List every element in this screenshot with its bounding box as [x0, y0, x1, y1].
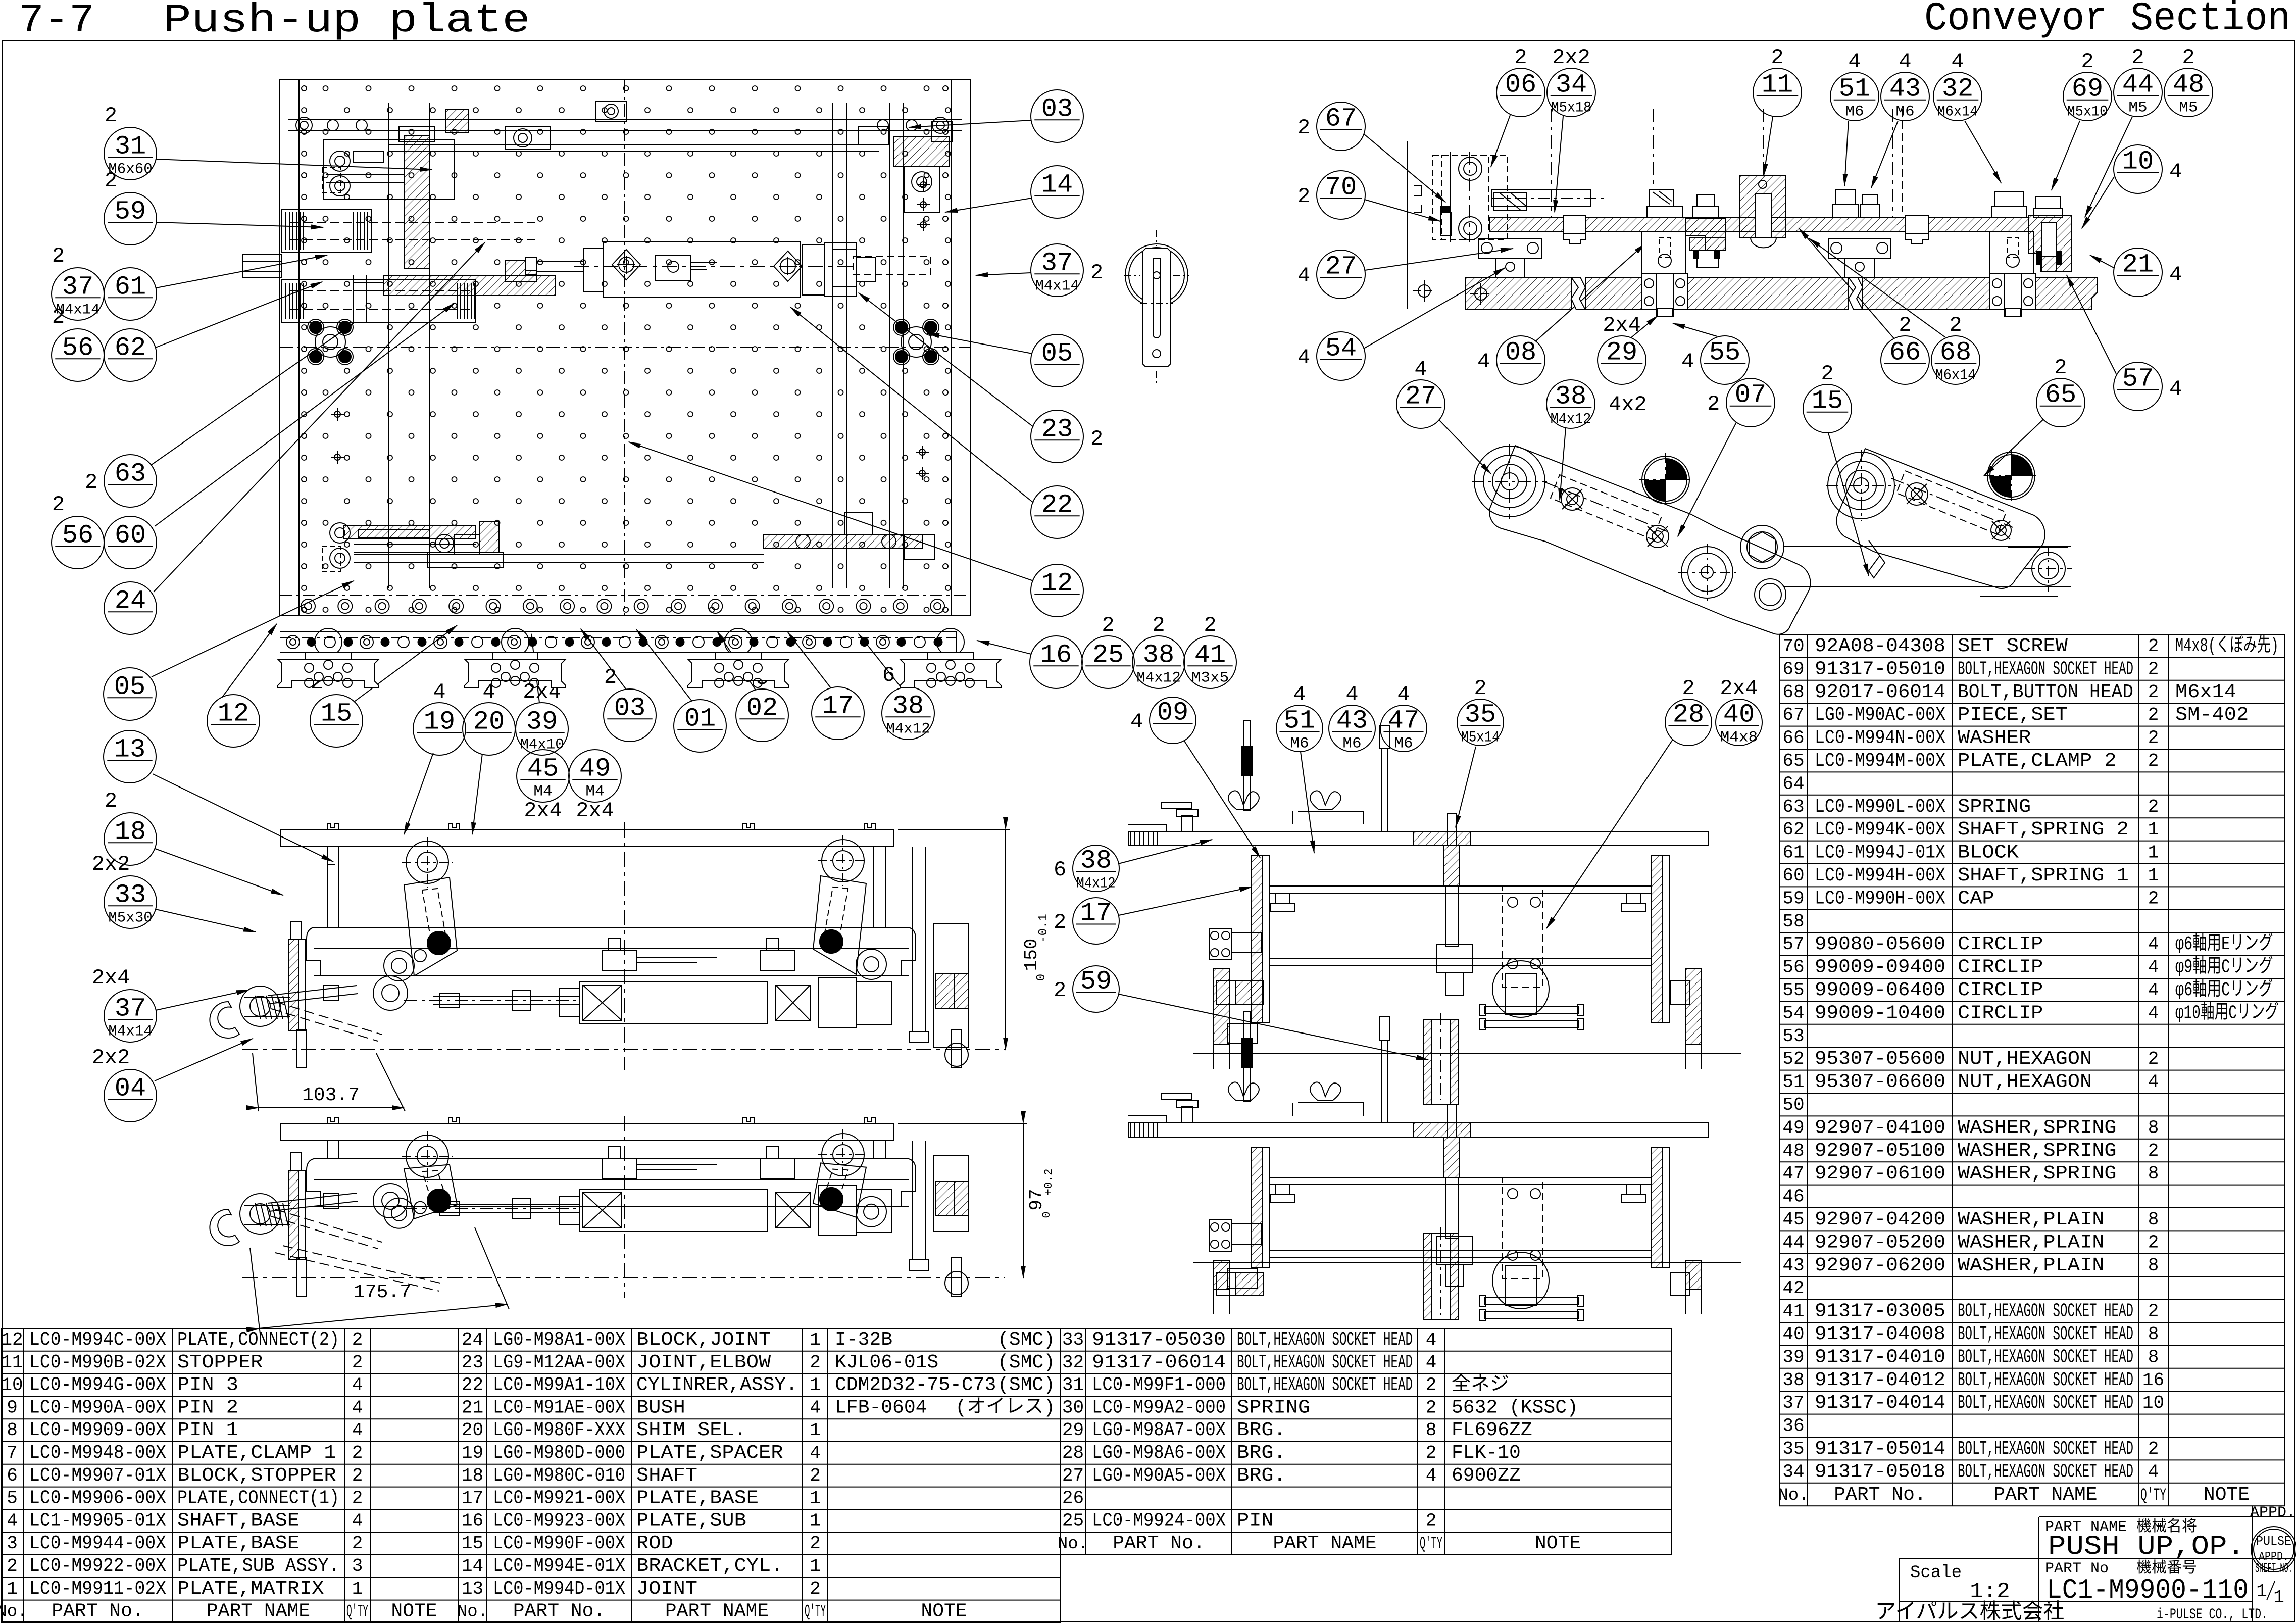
svg-text:47: 47 [1388, 706, 1419, 735]
svg-text:LG9-M12AA-00X: LG9-M12AA-00X [493, 1352, 625, 1373]
svg-text:PLATE,SPACER: PLATE,SPACER [636, 1442, 783, 1464]
svg-text:8: 8 [2148, 1324, 2159, 1345]
balloon 43 [1329, 682, 1375, 752]
svg-text:69: 69 [2072, 74, 2103, 104]
svg-text:70: 70 [1325, 173, 1357, 203]
svg-text:BUSH: BUSH [636, 1397, 685, 1418]
leader 61 [156, 255, 327, 288]
svg-text:M4: M4 [533, 783, 552, 800]
svg-text:175.7: 175.7 [354, 1282, 411, 1303]
svg-text:2: 2 [1514, 45, 1527, 70]
hatched block left lower [1235, 1272, 1264, 1296]
balloon 06 [1496, 45, 1545, 117]
balloon 48 [2164, 45, 2213, 117]
cross hole marks [920, 182, 926, 188]
svg-text:Conveyor Section: Conveyor Section [1924, 0, 2290, 42]
svg-text:51: 51 [1839, 74, 1870, 104]
left hanger bolt [1182, 1107, 1193, 1123]
svg-text:6900ZZ: 6900ZZ [1452, 1465, 1521, 1487]
svg-text:2: 2 [1090, 427, 1103, 451]
svg-text:4: 4 [482, 680, 495, 704]
right link bolts [1906, 483, 1928, 505]
svg-text:LC0-M9922-00X: LC0-M9922-00X [29, 1555, 166, 1577]
bolt pair x3654 x3698 [1835, 189, 1856, 205]
small bolts under rails [1276, 1185, 1290, 1195]
svg-text:4: 4 [1477, 350, 1490, 374]
balloon 43 [1881, 50, 1929, 121]
svg-text:-0.1: -0.1 [1037, 914, 1051, 943]
balloon 09 [1130, 697, 1196, 744]
svg-text:44: 44 [1782, 1232, 1804, 1253]
svg-text:M5x10: M5x10 [2067, 104, 2108, 121]
svg-text:40: 40 [1782, 1324, 1804, 1345]
balloon 07 [1707, 378, 1775, 427]
svg-text:43: 43 [1889, 74, 1921, 104]
svg-text:59: 59 [115, 196, 146, 226]
svg-text:2: 2 [2148, 751, 2159, 771]
balloon 60 [104, 516, 157, 569]
leader 10 [2082, 177, 2114, 228]
svg-text:3: 3 [352, 1556, 363, 1577]
svg-text:SPRING: SPRING [1237, 1397, 1310, 1418]
svg-text:PIN: PIN [1237, 1510, 1274, 1532]
svg-text:NOTE: NOTE [1535, 1533, 1581, 1554]
svg-text:37: 37 [62, 272, 93, 302]
adjuster bar (item 06 leader target) [1491, 189, 1590, 206]
right link arm [822, 840, 864, 882]
svg-text:LC0-M99A1-10X: LC0-M99A1-10X [493, 1374, 625, 1396]
left spring block upper [282, 210, 371, 253]
svg-text:SM-402: SM-402 [2175, 704, 2249, 726]
piston rod [433, 1204, 579, 1205]
left link arm [406, 1135, 448, 1177]
svg-text:0: 0 [1035, 974, 1049, 981]
balloon 45 [517, 750, 569, 802]
svg-text:19: 19 [462, 1443, 483, 1463]
svg-text:38: 38 [892, 691, 924, 721]
leader 22 [790, 307, 1033, 503]
svg-text:CIRCLIP: CIRCLIP [1958, 1002, 2043, 1024]
svg-text:23: 23 [462, 1352, 483, 1373]
svg-text:18: 18 [115, 817, 146, 847]
balloon 38 [1054, 845, 1119, 892]
balloon 13 [104, 730, 156, 783]
hatched plate segment [1413, 831, 1470, 846]
svg-text:LC0-M994C-00X: LC0-M994C-00X [29, 1329, 166, 1351]
bolt with washer x3290 [1650, 189, 1674, 206]
balloon 16 [1030, 636, 1082, 688]
svg-text:24: 24 [115, 586, 146, 616]
svg-text:12: 12 [218, 699, 249, 728]
svg-text:LC0-M994N-00X: LC0-M994N-00X [1815, 727, 1945, 749]
svg-text:2: 2 [2148, 1049, 2159, 1069]
svg-text:CAP: CAP [1958, 888, 1994, 909]
svg-text:STOPPER: STOPPER [177, 1352, 263, 1373]
balloon 15 [310, 671, 363, 747]
svg-text:66: 66 [1782, 728, 1804, 749]
leader 27m [1439, 420, 1491, 474]
svg-text:(SMC): (SMC) [997, 1329, 1055, 1351]
svg-text:4: 4 [7, 1510, 18, 1531]
svg-text:LC0-M9909-00X: LC0-M9909-00X [29, 1419, 166, 1441]
svg-text:1: 1 [810, 1556, 821, 1577]
svg-text:Scale: Scale [1910, 1563, 1962, 1583]
svg-text:7-7: 7-7 [19, 0, 94, 44]
svg-text:BOLT,HEXAGON SOCKET HEAD: BOLT,HEXAGON SOCKET HEAD [1237, 1329, 1413, 1351]
svg-text:12: 12 [1041, 568, 1073, 598]
svg-text:CDM2D32-75-C73: CDM2D32-75-C73 [835, 1374, 996, 1396]
balloon 02 [736, 666, 788, 742]
svg-text:PIN 3: PIN 3 [177, 1374, 238, 1396]
svg-text:SHEET NO.: SHEET NO. [2255, 1561, 2292, 1576]
svg-text:99009-06400: 99009-06400 [1815, 979, 1945, 1001]
svg-text:64: 64 [1782, 773, 1804, 794]
svg-text:2: 2 [105, 169, 117, 193]
left vertical column hatched [1252, 1147, 1263, 1267]
svg-text:2: 2 [1152, 613, 1165, 637]
balloon 24 [104, 582, 157, 634]
svg-text:WASHER,PLAIN: WASHER,PLAIN [1958, 1209, 2104, 1231]
balloon 34 [1547, 45, 1595, 117]
balloon 39 [516, 680, 568, 755]
svg-text:4: 4 [352, 1420, 363, 1441]
main beam body [307, 927, 916, 975]
balloon 04 [92, 1046, 157, 1122]
svg-text:LC0-M9944-00X: LC0-M9944-00X [29, 1533, 166, 1554]
svg-text:PLATE,CONNECT(2): PLATE,CONNECT(2) [177, 1329, 339, 1351]
svg-text:12: 12 [1, 1330, 23, 1350]
svg-text:8: 8 [2148, 1347, 2159, 1367]
svg-text:1: 1 [810, 1488, 821, 1509]
svg-text:LC0-M99A2-000: LC0-M99A2-000 [1092, 1397, 1226, 1418]
right hanger rod [912, 1141, 913, 1260]
svg-text:2x4: 2x4 [92, 966, 130, 990]
svg-text:M5: M5 [2128, 100, 2147, 117]
top plate [1128, 1123, 1709, 1137]
balloon 55 [1681, 336, 1749, 384]
svg-text:06: 06 [1505, 70, 1536, 100]
right vertical column hatched [1651, 1147, 1662, 1267]
top slide bar [288, 119, 962, 120]
svg-text:4: 4 [352, 1510, 363, 1531]
svg-text:Q'TY: Q'TY [1420, 1535, 1442, 1554]
leader 37r [976, 273, 1031, 275]
leader 66 [1799, 228, 1894, 338]
svg-text:4: 4 [2148, 980, 2159, 1001]
svg-text:26: 26 [1062, 1488, 1084, 1509]
balloon 37 [92, 966, 157, 1042]
parts table block 3 (items 25-33) [1060, 1328, 1671, 1555]
left shaft protruding [243, 255, 282, 278]
svg-text:M4x8: M4x8 [1720, 729, 1758, 746]
svg-text:LC0-M9911-02X: LC0-M9911-02X [29, 1578, 166, 1600]
balloon 38 [882, 663, 934, 740]
svg-text:LC0-M9906-00X: LC0-M9906-00X [29, 1488, 166, 1509]
svg-text:BLOCK: BLOCK [1958, 842, 2019, 864]
svg-text:SPRING: SPRING [1958, 796, 2031, 818]
svg-text:4: 4 [2148, 1461, 2159, 1482]
svg-text:31: 31 [1062, 1375, 1084, 1396]
svg-text:LC0-M994E-01X: LC0-M994E-01X [493, 1555, 625, 1577]
svg-text:13: 13 [114, 734, 145, 764]
balloon 12 [207, 695, 260, 747]
svg-text:2x4: 2x4 [524, 799, 562, 823]
svg-text:M4x12: M4x12 [1136, 669, 1180, 686]
svg-text:i-PULSE CO., LTD.: i-PULSE CO., LTD. [2157, 1606, 2268, 1623]
svg-text:M6: M6 [1394, 735, 1413, 752]
right circle boss [1492, 1252, 1549, 1309]
balloon 37 [52, 244, 104, 320]
svg-text:M4: M4 [585, 783, 604, 800]
svg-text:2: 2 [352, 1330, 363, 1350]
svg-text:07: 07 [1735, 380, 1766, 410]
svg-text:4: 4 [2148, 934, 2159, 955]
svg-text:09: 09 [1157, 698, 1188, 727]
svg-text:2: 2 [2131, 45, 2144, 70]
left spring end [1130, 1123, 1131, 1137]
svg-text:2: 2 [1682, 676, 1694, 701]
svg-text:23: 23 [1041, 414, 1073, 444]
leader 05 [152, 581, 354, 677]
svg-text:4: 4 [352, 1375, 363, 1396]
svg-text:39: 39 [526, 707, 558, 736]
balloon 21 [2114, 248, 2182, 297]
leader 17b [788, 632, 831, 688]
balloon 57 [2114, 362, 2182, 411]
leader 35 [1456, 747, 1476, 827]
svg-text:8: 8 [2148, 1163, 2159, 1184]
right end hole [2032, 552, 2065, 585]
cylinder fittings [603, 951, 637, 971]
right target circle [1987, 452, 2035, 500]
svg-text:NOTE: NOTE [391, 1601, 437, 1622]
center pin rod [1382, 1040, 1388, 1123]
balloon 38 [1546, 380, 1595, 428]
cylinder assembly plan (CYLINRER ASSY item 22) [603, 242, 800, 298]
svg-text:92907-04100: 92907-04100 [1815, 1117, 1945, 1139]
svg-text:03: 03 [1041, 94, 1073, 124]
bottom rail line [1193, 1262, 1741, 1263]
svg-text:2: 2 [2182, 45, 2194, 70]
balloon 23 [1031, 410, 1103, 463]
svg-text:BRG.: BRG. [1237, 1419, 1286, 1441]
svg-text:LC0-M994K-00X: LC0-M994K-00X [1815, 819, 1945, 841]
svg-text:2: 2 [2148, 682, 2159, 703]
svg-text:62: 62 [115, 333, 146, 363]
balloon 11 [1753, 45, 1802, 117]
leader 12b [222, 624, 277, 697]
leader 38m [1560, 428, 1566, 500]
balloon 67 [1297, 102, 1365, 151]
svg-text:91317-03005: 91317-03005 [1815, 1301, 1945, 1322]
svg-text:51: 51 [1284, 706, 1315, 735]
svg-text:38: 38 [1143, 640, 1174, 670]
balloon 19 [413, 680, 466, 755]
svg-text:49: 49 [1782, 1117, 1804, 1138]
dimension 97 [898, 1123, 1027, 1124]
leader 17s [1119, 887, 1252, 915]
svg-text:2: 2 [1426, 1397, 1437, 1418]
svg-text:LC0-M9907-01X: LC0-M9907-01X [29, 1465, 166, 1487]
svg-text:BRG.: BRG. [1237, 1442, 1286, 1464]
leader 16 [977, 641, 1031, 654]
piece set (item 67) filled [1441, 206, 1450, 212]
svg-text:LC0-M99F1-000: LC0-M99F1-000 [1092, 1374, 1226, 1396]
leader 43t [1871, 121, 1898, 188]
svg-text:25: 25 [1092, 640, 1124, 670]
svg-text:2: 2 [1426, 1375, 1437, 1396]
svg-text:39: 39 [1782, 1347, 1804, 1367]
balloon 15 [1803, 362, 1852, 433]
svg-text:02: 02 [746, 693, 778, 723]
svg-text:M3x5: M3x5 [1191, 669, 1229, 686]
svg-text:66: 66 [1889, 338, 1921, 368]
svg-text:33: 33 [115, 880, 146, 910]
balloon 35 [1457, 676, 1504, 746]
left leg [327, 1141, 328, 1159]
left leg [327, 847, 328, 927]
svg-text:4: 4 [1297, 346, 1310, 370]
svg-text:4: 4 [1130, 710, 1143, 734]
right leg hatched [1685, 969, 1702, 1045]
svg-text:2: 2 [810, 1579, 821, 1599]
svg-text:03: 03 [614, 693, 645, 723]
svg-text:91317-06014: 91317-06014 [1092, 1352, 1226, 1373]
svg-text:LC0-M9924-00X: LC0-M9924-00X [1092, 1510, 1226, 1532]
balloon 31 [104, 104, 157, 180]
svg-text:4: 4 [2148, 1072, 2159, 1093]
svg-text:54: 54 [1325, 334, 1357, 364]
svg-text:2x2: 2x2 [92, 1046, 130, 1070]
svg-text:1: 1 [2256, 1581, 2267, 1602]
svg-text:11: 11 [1, 1352, 23, 1373]
svg-text:63: 63 [1782, 797, 1804, 817]
svg-text:28: 28 [1673, 700, 1704, 729]
upper-right bracket assembly [894, 136, 950, 167]
vertical centerline [624, 1116, 625, 1298]
svg-text:91317-04012: 91317-04012 [1815, 1369, 1945, 1391]
svg-text:LG0-M980F-XXX: LG0-M980F-XXX [493, 1419, 625, 1441]
svg-text:No.: No. [1778, 1486, 1809, 1505]
svg-text:4: 4 [1414, 357, 1427, 381]
svg-text:55: 55 [1782, 980, 1804, 1001]
center block on rail [1436, 1236, 1473, 1264]
leader 18 [155, 849, 283, 895]
svg-text:+0.2: +0.2 [1042, 1169, 1055, 1196]
svg-text:2: 2 [1771, 45, 1783, 70]
air cylinder [579, 981, 768, 1024]
svg-text:PLATE,SUB: PLATE,SUB [636, 1510, 746, 1532]
svg-text:32: 32 [1062, 1352, 1084, 1373]
leader 24 [154, 242, 485, 592]
leader 01 [636, 629, 692, 701]
leader 65 [1984, 419, 2043, 476]
balloon 03 [1031, 90, 1083, 142]
bolt cluster left [315, 327, 345, 357]
svg-text:4: 4 [1848, 50, 1861, 74]
left link arm [406, 841, 448, 883]
svg-text:LC0-M9921-00X: LC0-M9921-00X [493, 1488, 625, 1509]
balloon 70 [1297, 171, 1365, 219]
left leg hatched [1213, 1260, 1229, 1290]
svg-text:2: 2 [85, 470, 97, 495]
svg-text:24: 24 [462, 1330, 483, 1350]
svg-text:PLATE,SUB ASSY.: PLATE,SUB ASSY. [177, 1555, 339, 1577]
svg-text:28: 28 [1062, 1443, 1084, 1463]
svg-text:2: 2 [352, 1443, 363, 1463]
svg-text:92907-05100: 92907-05100 [1815, 1140, 1945, 1162]
svg-text:6: 6 [7, 1465, 18, 1486]
svg-text:65: 65 [2045, 380, 2076, 410]
left leg hatched [1213, 969, 1229, 1045]
svg-text:WASHER,SPRING: WASHER,SPRING [1958, 1117, 2117, 1139]
upper-center hatched column [404, 136, 429, 268]
plate centerlines [624, 80, 625, 616]
svg-text:01: 01 [684, 704, 716, 733]
svg-text:4: 4 [2169, 160, 2182, 184]
left spring rod [244, 1205, 290, 1206]
svg-text:4: 4 [810, 1443, 821, 1463]
svg-text:4: 4 [2148, 957, 2159, 978]
svg-text:BRG.: BRG. [1237, 1465, 1286, 1487]
svg-text:68: 68 [1782, 682, 1804, 703]
svg-text:3: 3 [7, 1533, 18, 1554]
svg-text:Q'TY: Q'TY [346, 1603, 368, 1622]
svg-text:15: 15 [462, 1533, 483, 1554]
svg-text:2: 2 [352, 1533, 363, 1554]
pin rows under boss circle [1485, 1298, 1578, 1305]
connecting bar with break [1783, 546, 2071, 547]
svg-text:67: 67 [1782, 705, 1804, 725]
right link plate outline [1836, 449, 2045, 588]
svg-text:LG0-M980C-010: LG0-M980C-010 [493, 1465, 625, 1487]
leader 15b [354, 625, 457, 702]
svg-text:17: 17 [1080, 898, 1112, 928]
svg-text:47: 47 [1782, 1163, 1804, 1184]
svg-text:2: 2 [105, 104, 117, 128]
balloon 08 [1477, 336, 1545, 384]
svg-text:PULSE: PULSE [2256, 1534, 2291, 1549]
svg-text:1: 1 [7, 1579, 18, 1599]
svg-text:BOLT,HEXAGON SOCKET HEAD: BOLT,HEXAGON SOCKET HEAD [1958, 1323, 2133, 1345]
svg-text:M5x14: M5x14 [1461, 729, 1500, 746]
svg-text:37: 37 [1041, 248, 1073, 278]
svg-text:NOTE: NOTE [921, 1601, 967, 1622]
upper-left bracket assembly [323, 140, 455, 200]
leader 28 [1546, 740, 1673, 928]
svg-text:PIECE,SET: PIECE,SET [1958, 704, 2068, 726]
svg-text:40: 40 [1723, 700, 1755, 729]
svg-text:φ9軸用Cリング: φ9軸用Cリング [2175, 956, 2273, 978]
svg-text:21: 21 [462, 1397, 483, 1418]
svg-text:2: 2 [1204, 613, 1216, 637]
left link plate outline [1489, 446, 1810, 634]
svg-text:1: 1 [2148, 843, 2159, 863]
svg-text:19: 19 [424, 707, 455, 736]
svg-text:91317-05010: 91317-05010 [1815, 658, 1945, 680]
svg-text:2: 2 [1821, 362, 1833, 386]
svg-text:LC0-M994D-01X: LC0-M994D-01X [493, 1578, 625, 1600]
svg-text:CIRCLIP: CIRCLIP [1958, 957, 2043, 978]
leader 03 [909, 120, 1031, 127]
svg-text:4: 4 [1426, 1352, 1437, 1373]
svg-text:60: 60 [115, 520, 146, 550]
svg-text:PART No.: PART No. [52, 1601, 143, 1622]
svg-text:4: 4 [1397, 682, 1410, 707]
left bearing bracket [1479, 238, 1541, 259]
svg-text:43: 43 [1782, 1255, 1804, 1276]
svg-text:92017-06014: 92017-06014 [1815, 681, 1945, 703]
